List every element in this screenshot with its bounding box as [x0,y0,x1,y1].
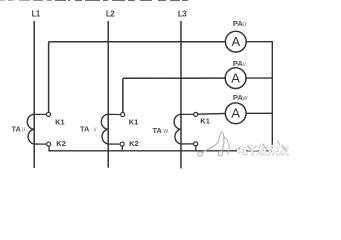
svg-text:K1: K1 [55,117,65,126]
wire: TA2 K2 stub [108,143,120,145]
watermark logo swoosh [202,132,224,153]
terminal K2 of TA2 [120,142,124,146]
svg-text:W: W [242,96,248,102]
wire: TA2 K1 stub [108,113,120,115]
ammeter PA_V [225,68,246,89]
wire: K2 TA1 drop to common return [48,146,50,151]
svg-text:TA: TA [153,126,163,135]
svg-text:A: A [231,106,240,121]
wire: common bottom return [49,150,272,152]
terminal K1 of TA3 [194,112,198,116]
terminal K2 of TA1 [47,142,51,146]
watermark logo paren arc [224,137,229,155]
ammeter PA_W [225,103,246,124]
label TA_V [80,124,97,133]
svg-text:A: A [231,34,240,49]
cut-off text row at top edge [0,0,188,1]
label PA_W [233,93,249,102]
wire: TA1 K2 stub [34,143,47,145]
label PA_U [233,19,247,28]
ammeter PA_U [225,31,246,52]
wire: K1 TA3 run to PA_W [198,113,226,116]
wire: phase line L1 [33,22,35,168]
label TA_W [153,126,169,135]
svg-text:K1: K1 [200,117,210,126]
terminal K1 of TA1 [46,112,50,116]
wire: K2 TA3 drop to common return [195,146,197,151]
svg-text:U: U [22,127,26,133]
svg-text:K1: K1 [129,117,139,126]
current transformer TA3 winding [174,114,181,144]
wire: TA1 K1 stub [34,113,46,115]
current transformer TA1 winding [27,114,34,144]
wire: K1 TA1 riser and top run to PA_U [49,42,226,113]
watermark logo circle A [198,152,202,156]
wire: phase line L2 [107,22,109,167]
wire: PA_V output to right rail [246,77,272,79]
svg-text:L3: L3 [178,10,187,19]
label TA_U [12,124,26,133]
wire: right vertical rail [271,42,273,151]
watermark text 电子发烧友 [236,141,289,157]
svg-text:W: W [163,129,168,135]
label PA_V [233,59,247,68]
svg-text:V: V [242,62,246,68]
wire: phase line L3 [180,22,182,168]
svg-text:K2: K2 [129,139,139,148]
svg-text:A: A [231,70,240,85]
svg-text:U: U [242,22,246,28]
wire: PA_U output to right rail [246,41,272,43]
svg-text:K2: K2 [56,139,66,148]
wire: TA3 K2 stub [181,143,194,145]
svg-text:TA: TA [80,124,90,133]
wire: PA_W output to right rail [246,112,272,114]
svg-text:L2: L2 [106,10,115,19]
wire: K1 TA2 riser and run to PA_V [123,78,225,112]
svg-text:TA: TA [12,124,22,133]
svg-text:L1: L1 [32,10,41,19]
terminal K1 of TA2 [121,112,125,116]
watermark logo circle B [218,151,222,155]
wire: K2 TA2 drop to common return [121,146,123,151]
wire: TA3 K1 stub [181,113,194,115]
terminal K2 of TA3 [194,142,198,146]
current transformer TA2 winding [101,114,108,144]
svg-text:电子发烧友: 电子发烧友 [236,142,289,156]
